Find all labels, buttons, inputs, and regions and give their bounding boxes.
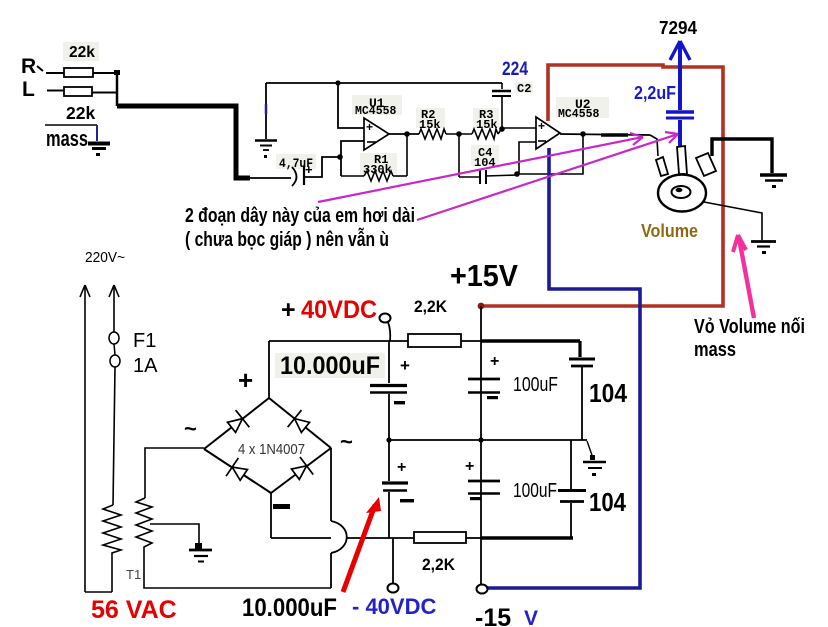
- svg-text:2,2K: 2,2K: [414, 297, 448, 316]
- svg-text:22k: 22k: [66, 103, 95, 123]
- svg-text:+: +: [465, 458, 474, 475]
- svg-text:15k: 15k: [476, 118, 498, 132]
- svg-text:Volume: Volume: [641, 221, 698, 241]
- svg-text:+: +: [238, 365, 253, 395]
- svg-text:4 x 1N4007: 4 x 1N4007: [238, 441, 305, 458]
- svg-text:MC4558: MC4558: [558, 108, 600, 121]
- svg-text:56 VAC: 56 VAC: [91, 596, 177, 624]
- svg-text:10.000uF: 10.000uF: [280, 352, 380, 380]
- svg-text:104: 104: [589, 487, 626, 517]
- svg-text:2,2uF: 2,2uF: [634, 83, 676, 103]
- svg-text:224: 224: [502, 58, 528, 80]
- svg-text:C2: C2: [517, 82, 531, 96]
- svg-text:R: R: [21, 55, 36, 78]
- svg-text:22k: 22k: [69, 44, 95, 61]
- svg-text:mass: mass: [694, 339, 736, 361]
- svg-text:+: +: [281, 296, 296, 324]
- svg-text:+: +: [538, 119, 545, 133]
- svg-text:~: ~: [340, 429, 353, 454]
- svg-text:220V~: 220V~: [85, 250, 125, 266]
- svg-text:100uF: 100uF: [513, 374, 558, 396]
- svg-text:L: L: [22, 78, 35, 101]
- svg-text:+: +: [397, 459, 406, 476]
- svg-text:V: V: [524, 607, 538, 627]
- svg-text:1A: 1A: [133, 355, 158, 377]
- svg-text:2,2K: 2,2K: [422, 555, 456, 574]
- svg-text:+15V: +15V: [450, 258, 518, 293]
- svg-text:7294: 7294: [659, 17, 698, 38]
- svg-text:( chưa bọc giáp ) nên vẫn ù: ( chưa bọc giáp ) nên vẫn ù: [185, 227, 389, 251]
- svg-text:+: +: [305, 162, 313, 177]
- svg-text:F1: F1: [133, 330, 156, 352]
- svg-text:100uF: 100uF: [513, 480, 557, 502]
- svg-text:104: 104: [589, 378, 627, 408]
- svg-text:mass: mass: [46, 126, 88, 151]
- svg-text:~: ~: [184, 416, 197, 441]
- svg-text:MC4558: MC4558: [355, 105, 397, 118]
- svg-text:10.000uF: 10.000uF: [242, 594, 337, 622]
- svg-text:+: +: [490, 353, 499, 370]
- svg-text:330k: 330k: [363, 163, 392, 177]
- svg-text:40VDC: 40VDC: [301, 296, 377, 324]
- svg-text:T1: T1: [126, 567, 141, 582]
- svg-text:-15: -15: [475, 604, 511, 627]
- svg-text:15k: 15k: [419, 118, 441, 132]
- svg-text:- 40VDC: - 40VDC: [352, 594, 436, 619]
- svg-text:+: +: [400, 356, 410, 375]
- svg-text:Vỏ Volume nối: Vỏ Volume nối: [694, 316, 805, 338]
- svg-text:+: +: [366, 120, 373, 134]
- svg-text:2 đoạn dây này của em hơi dài: 2 đoạn dây này của em hơi dài: [185, 205, 415, 227]
